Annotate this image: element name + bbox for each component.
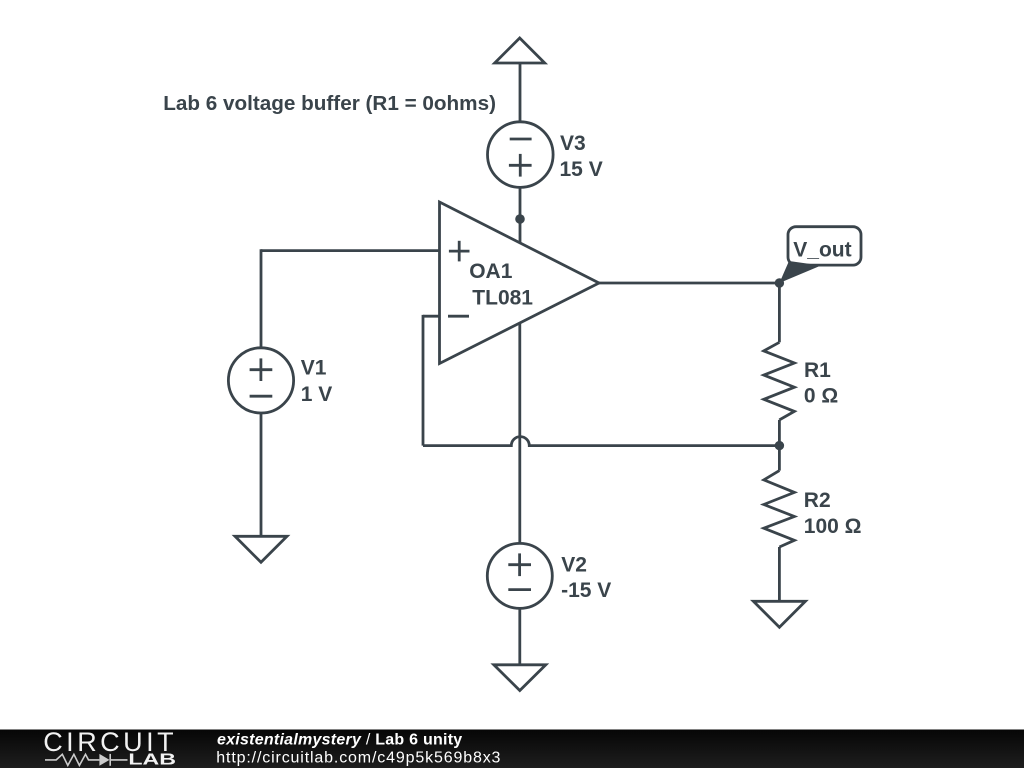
svg-text:1 V: 1 V	[301, 383, 333, 406]
svg-text:Lab 6 voltage buffer (R1 = 0oh: Lab 6 voltage buffer (R1 = 0ohms)	[163, 92, 496, 115]
svg-text:100 Ω: 100 Ω	[804, 515, 862, 538]
svg-text:LAB: LAB	[128, 751, 176, 768]
svg-text:existentialmystery / Lab 6 uni: existentialmystery / Lab 6 unity	[217, 732, 462, 749]
svg-text:http://circuitlab.com/c49p5k56: http://circuitlab.com/c49p5k569b8x3	[216, 750, 501, 767]
svg-text:-15 V: -15 V	[561, 579, 611, 602]
svg-text:V3: V3	[560, 132, 586, 155]
svg-text:OA1: OA1	[469, 260, 513, 283]
svg-text:V_out: V_out	[793, 239, 851, 262]
svg-text:R2: R2	[804, 489, 831, 512]
svg-text:V1: V1	[301, 357, 327, 380]
svg-text:V2: V2	[561, 554, 587, 577]
svg-text:15 V: 15 V	[560, 158, 603, 181]
svg-text:R1: R1	[804, 359, 831, 382]
svg-text:TL081: TL081	[472, 287, 533, 310]
svg-text:0 Ω: 0 Ω	[804, 385, 838, 408]
